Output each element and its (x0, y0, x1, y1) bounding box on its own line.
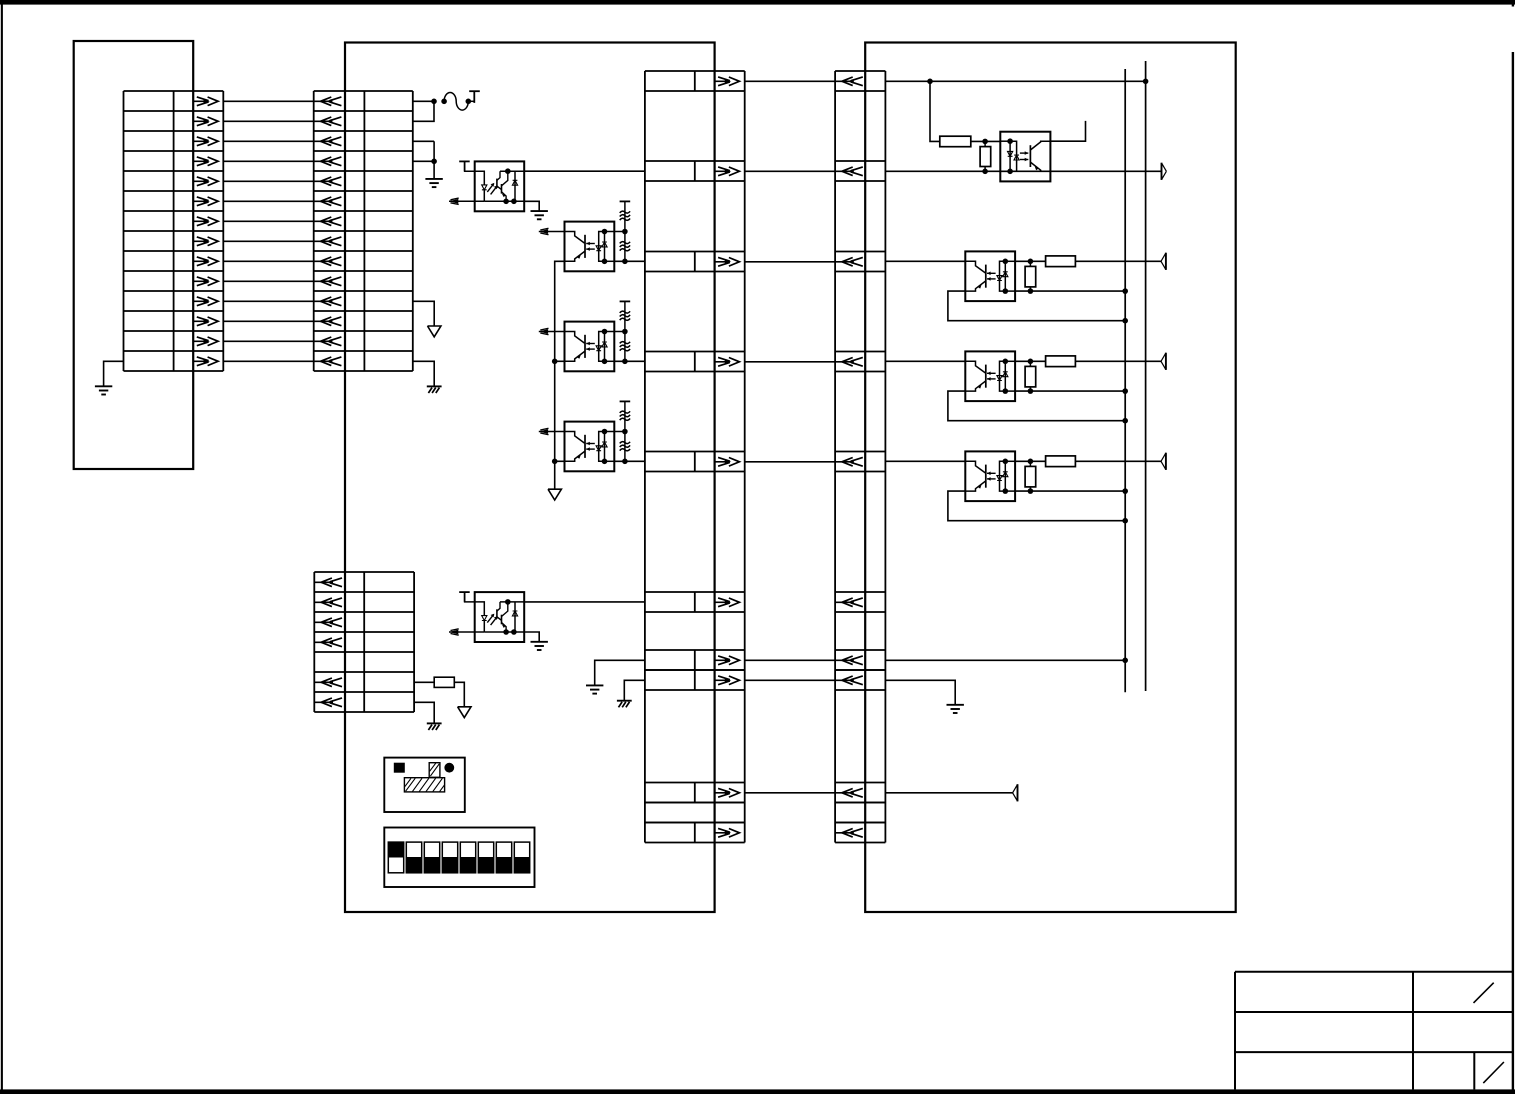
pin out-arrow CN1-4 (193, 157, 218, 166)
wire CN4 row D to PC8 (885, 360, 965, 362)
wire PC8 cathode to bus1 (1015, 390, 1125, 392)
wire PC5 emitter to ground (524, 632, 539, 642)
junction PC9 anode (1028, 459, 1034, 465)
wire CN4 row G to bus1 (885, 659, 1125, 661)
wire R9 stub bottom (984, 167, 986, 172)
junction R9 top (982, 139, 988, 145)
junction PC9 cathode (1028, 488, 1034, 494)
junction node pin1 (431, 99, 437, 105)
pin in-arrow CN2-4 (314, 157, 342, 166)
pin in-arrow CN4 row3 (835, 257, 863, 266)
connector pin triangle row I (in) (1017, 784, 1019, 801)
junction PC3 anode (622, 329, 628, 335)
junction PC8 anode (1028, 359, 1034, 365)
wire pull-up chain PC2 (624, 201, 626, 261)
wire CN4 row E to PC9 (885, 460, 965, 462)
wire bus row H CN3-CN4 (745, 679, 835, 681)
opto-coupler PC4 (receiver) (565, 422, 615, 472)
junction emitter bus PC4 (552, 459, 558, 465)
pin out-arrow CN3 row8 (715, 676, 740, 685)
pin out-arrow CN1-2 (193, 117, 218, 126)
wire PC8 anode link (1015, 360, 1046, 362)
ground earth (CN1 pin14) (95, 386, 112, 394)
wire PC8 to connector pin (1075, 360, 1161, 362)
junction row A bus2 (1143, 79, 1149, 85)
junction PC7 cathode (1028, 288, 1034, 294)
wire PC3 cathode to CN3 (614, 360, 645, 362)
pin in-arrow CN2-8 (314, 237, 342, 246)
connector table CN1 (left, 14 pins) (124, 91, 224, 371)
pin in-arrow CN5-4 (314, 638, 342, 647)
border frame top (0, 0, 1515, 5)
wire jumper squiggle (444, 93, 468, 111)
signal arrow PC4 output (539, 428, 565, 434)
resistor R11 (PC7 parallel) (1025, 266, 1036, 287)
module block left (CPU unit) (74, 41, 194, 469)
pin in-arrow CN4 row11 (835, 828, 863, 837)
connector pin triangle row E (in) (1165, 453, 1167, 470)
wire PC9 R stub top (1029, 461, 1031, 466)
resistor R9 (PC6 parallel) (980, 147, 991, 167)
title block slash mark lower (1483, 1062, 1504, 1083)
terminal post pull-up PC4 (620, 400, 631, 402)
pin in-arrow CN5-7 (314, 698, 342, 707)
border frame bottom (0, 1089, 1515, 1094)
junction PC7 anode (1028, 259, 1034, 265)
wire CN4 row B to connector pin (through PC6) (885, 170, 1161, 172)
pin in-arrow CN4 row1 (835, 77, 863, 86)
pin out-arrow CN1-7 (193, 217, 218, 226)
wire CN4 row H to ground (885, 680, 955, 705)
ground earth (PC1) (531, 211, 548, 219)
wire PC4 anode link (614, 431, 625, 433)
wire PC7 anode link (1015, 260, 1046, 262)
wire PC4 cathode to CN3 (614, 460, 645, 462)
pin out-arrow CN3 row5 (715, 457, 740, 466)
pin out-arrow CN1-1 (193, 97, 218, 106)
pin out-arrow CN3 row4 (715, 357, 740, 366)
pin out-arrow CN1-13 (193, 337, 218, 346)
wire PC7 cathode to bus1 (1015, 290, 1125, 292)
junction PC9 cathode bus1 (1122, 488, 1128, 494)
junction PC2 cathode (622, 259, 628, 265)
junction PC4 anode (622, 429, 628, 435)
opto-coupler PC3 (receiver) (565, 322, 615, 372)
junction PC9 emitter bus1 (1122, 518, 1128, 524)
junction PC8 cathode (1028, 388, 1034, 394)
wire CN2 pin1 to junction (413, 100, 434, 102)
junction row G bus1 (1122, 658, 1128, 664)
wire CN4 row A to bus2 (885, 80, 1145, 82)
bus line 1 (signal ground) (1124, 69, 1126, 692)
wire PC8 R stub bottom (1029, 387, 1031, 391)
wire PC7 emitter return (948, 291, 1125, 321)
resistor R5 (chain PC4 upper) (620, 411, 630, 413)
wire R9 stub top (984, 141, 986, 146)
wire bus row G CN3-CN4 (745, 659, 835, 661)
pin in-arrow CN4 row2 (835, 167, 863, 176)
connector pin triangle row D (in) (1165, 353, 1167, 370)
pin in-arrow CN4 row7 (835, 656, 863, 665)
ground earth (row G left) (586, 685, 603, 693)
wire feed drop to R8 (930, 81, 940, 141)
terminal post FG (469, 91, 480, 103)
junction node pin4 (431, 159, 437, 165)
pin in-arrow CN4 row5 (835, 457, 863, 466)
wire PC9 cathode to bus1 (1015, 490, 1125, 492)
pin in-arrow CN2-6 (314, 197, 342, 206)
terminal post pull-up PC3 (620, 300, 631, 302)
pin in-arrow CN4 row4 (835, 357, 863, 366)
connector table CN4 (middle bus right) (835, 71, 885, 843)
pin in-arrow CN5-3 (314, 618, 342, 627)
wire PC8 R stub top (1029, 361, 1031, 366)
terminal post VCC2 (459, 592, 470, 602)
resistor R15 (PC9 parallel) (1025, 466, 1036, 487)
resistor R14 (PC9 series) (1046, 456, 1076, 467)
resistor R13 (PC8 parallel) (1025, 366, 1036, 387)
wire junction drop pin3-pin4 (433, 141, 435, 179)
DIP switch SW1 (8 position) (384, 828, 534, 888)
wire PC7 to connector pin (1075, 260, 1161, 262)
wire bus row C CN3-CN4 (745, 261, 835, 263)
border frame right top tick (1512, 0, 1514, 7)
wire PC7 R stub bottom (1029, 287, 1031, 291)
wire R8 to PC6 (971, 140, 1001, 142)
pin out-arrow CN1-6 (193, 197, 218, 206)
wire PC2 cathode to CN3 (614, 260, 645, 262)
wire PC3 anode link (614, 331, 625, 333)
pin out-arrow CN1-11 (193, 297, 218, 306)
pin in-arrow CN2-13 (314, 337, 342, 346)
wire emitter link PC3 (555, 360, 565, 362)
wire CN4 row I to connector pin (885, 792, 1012, 794)
border frame right (1512, 52, 1514, 1094)
wire PC2 anode link (614, 231, 625, 233)
opto-coupler PC1 (darlington) (465, 161, 525, 211)
opto-coupler PC6 (transmitter) (1000, 132, 1050, 182)
terminal post VCC1 (459, 161, 470, 171)
pin out-arrow CN1-9 (193, 257, 218, 266)
wire PC5 collector to CN3 row F (524, 601, 645, 603)
pin in-arrow CN2-2 (314, 117, 342, 126)
resistor R4 (chain PC3 lower) (620, 342, 630, 344)
pin in-arrow CN2-3 (314, 137, 342, 146)
pin in-arrow CN2-5 (314, 177, 342, 186)
resistor R2 (chain PC2 lower) (620, 242, 630, 244)
junction PC8 emitter bus1 (1122, 418, 1128, 424)
module block right (I/O unit) (865, 43, 1235, 913)
ground chassis (CN5 pin7) (427, 723, 442, 730)
wire PC7 R stub top (1029, 261, 1031, 266)
bus line 2 (frame) (1145, 61, 1147, 691)
junction PC8 cathode bus1 (1122, 388, 1128, 394)
wire bus row I CN3-CN4 (745, 792, 835, 794)
jumper pad left (441, 99, 447, 105)
signal arrow PC5 cathode (449, 629, 484, 635)
pin out-arrow CN3 row3 (715, 257, 740, 266)
ground triangle (CN5 pin6) (458, 707, 471, 718)
title block slash mark upper (1474, 983, 1494, 1003)
pin out-arrow CN1-3 (193, 137, 218, 146)
connector table CN3 (middle bus left) (645, 71, 745, 843)
wire pad to terminal (468, 100, 474, 102)
ground chassis (row H left) (617, 701, 632, 708)
pin in-arrow CN4 row8 (835, 676, 863, 685)
opto-coupler PC9 (receiver) (965, 451, 1015, 501)
pin in-arrow CN2-7 (314, 217, 342, 226)
signal arrow PC3 output (539, 328, 565, 334)
resistor R12 (PC8 series) (1046, 356, 1076, 367)
signal arrow PC2 output (539, 228, 565, 234)
pin in-arrow CN2-10 (314, 277, 342, 286)
wire pull-up chain PC3 (624, 301, 626, 361)
pin in-arrow CN4 row9 (835, 788, 863, 797)
wire PC8 emitter return (948, 391, 1125, 421)
wire CN3 row H to ground (624, 680, 645, 700)
pin out-arrow CN1-8 (193, 237, 218, 246)
wire CN2 pin14 right (413, 361, 434, 386)
pin in-arrow CN2-9 (314, 257, 342, 266)
ground chassis (CN2 pin14) (427, 386, 442, 393)
wire bus row D CN3-CN4 (745, 361, 835, 363)
wire PC9 anode link (1015, 460, 1046, 462)
connector pin triangle row B (out) (1161, 163, 1163, 180)
pin in-arrow CN5-1 (314, 578, 342, 587)
wire pull-up chain PC4 (624, 401, 626, 461)
resistor R10 (PC7 series) (1046, 256, 1076, 267)
jumper setting block J1 (384, 758, 465, 812)
ground earth (CN2 pin4) (425, 179, 442, 187)
junction row A feed (927, 79, 933, 85)
ground earth (PC5) (531, 642, 548, 650)
pin in-arrow CN4 row6 (835, 598, 863, 607)
title block (1235, 972, 1513, 1090)
wire PC1 collector to CN3 row B (524, 170, 645, 172)
pin in-arrow CN2-1 (314, 97, 342, 106)
pin in-arrow CN5-6 (314, 678, 342, 687)
pin out-arrow CN3 row11 (715, 828, 740, 837)
pin out-arrow CN1-10 (193, 277, 218, 286)
connector pin triangle row C (in) (1165, 253, 1167, 270)
resistor R7 (CN5 pin6) (434, 677, 454, 687)
wire CN5 pin7 (414, 702, 434, 723)
wire CN4 row C to PC7 (885, 260, 965, 262)
resistor R6 (chain PC4 lower) (620, 442, 630, 444)
resistor R1 (chain PC2 upper) (620, 211, 630, 213)
resistor R3 (chain PC3 upper) (620, 311, 630, 313)
junction PC7 cathode bus1 (1122, 288, 1128, 294)
wire bus row E CN3-CN4 (745, 461, 835, 463)
wire bus row A CN3-CN4 (745, 80, 835, 82)
jumper pad right (466, 99, 472, 105)
junction PC4 cathode (622, 459, 628, 465)
connector table CN2 (middle-left, 14 pins) (314, 91, 413, 371)
connector table CN5 (lower left, 7 pins) (314, 572, 414, 712)
signal arrow PC1 cathode (449, 198, 484, 204)
wire emitter link PC4 (555, 460, 565, 462)
wire CN5 pin6 to resistor (414, 681, 434, 683)
border frame left (1, 0, 3, 1094)
wire PC9 to connector pin (1075, 460, 1161, 462)
junction PC2 anode (622, 229, 628, 235)
pin in-arrow CN5-2 (314, 598, 342, 607)
opto-coupler PC7 (receiver) (965, 251, 1015, 301)
pin out-arrow CN3 row2 (715, 167, 740, 176)
junction PC7 emitter bus1 (1122, 318, 1128, 324)
wire CN2 pin4 (413, 160, 434, 162)
opto-coupler PC8 (receiver) (965, 351, 1015, 401)
pin in-arrow CN2-14 (314, 357, 342, 366)
wire CN1 pin14 left (104, 361, 124, 386)
ribbon cable wires CN1 to CN2 (223, 101, 313, 361)
wire PC9 emitter return (948, 491, 1125, 521)
pin out-arrow CN3 row9 (715, 788, 740, 797)
ground triangle (CN2 pin11) (428, 326, 441, 337)
pin in-arrow CN2-12 (314, 317, 342, 326)
pin out-arrow CN3 row7 (715, 656, 740, 665)
junction emitter bus PC3 (552, 359, 558, 365)
pin out-arrow CN1-14 (193, 357, 218, 366)
resistor R8 (PC6 series) (940, 136, 971, 147)
wire jumper link pin1-pin2 (413, 101, 434, 121)
ground triangle (emitter bus) (548, 489, 561, 500)
opto-coupler PC5 (darlington) (465, 592, 525, 642)
junction PC3 cathode (622, 359, 628, 365)
wire PC1 emitter to ground (524, 201, 539, 211)
pin out-arrow CN3 row1 (715, 77, 740, 86)
wire emitter bus PC2 (555, 261, 565, 489)
pin in-arrow CN2-11 (314, 297, 342, 306)
terminal post pull-up PC2 (620, 200, 631, 202)
pin out-arrow CN1-5 (193, 177, 218, 186)
wire PC6 collector stub (1050, 121, 1085, 141)
ground earth (row H right) (947, 705, 964, 713)
wire resistor to ground triangle (454, 682, 464, 707)
wire bus row B CN3-CN4 (745, 170, 835, 172)
pin out-arrow CN3 row6 (715, 598, 740, 607)
junction R9 bottom (982, 169, 988, 175)
wire PC9 R stub bottom (1029, 487, 1031, 491)
module block middle (interface unit) (345, 43, 715, 913)
opto-coupler PC2 (receiver) (565, 222, 615, 272)
pin out-arrow CN1-12 (193, 317, 218, 326)
wire CN3 row G to ground (595, 660, 645, 685)
wire CN2 pin3 to junction (413, 140, 434, 142)
wire CN2 pin11 (413, 301, 434, 326)
